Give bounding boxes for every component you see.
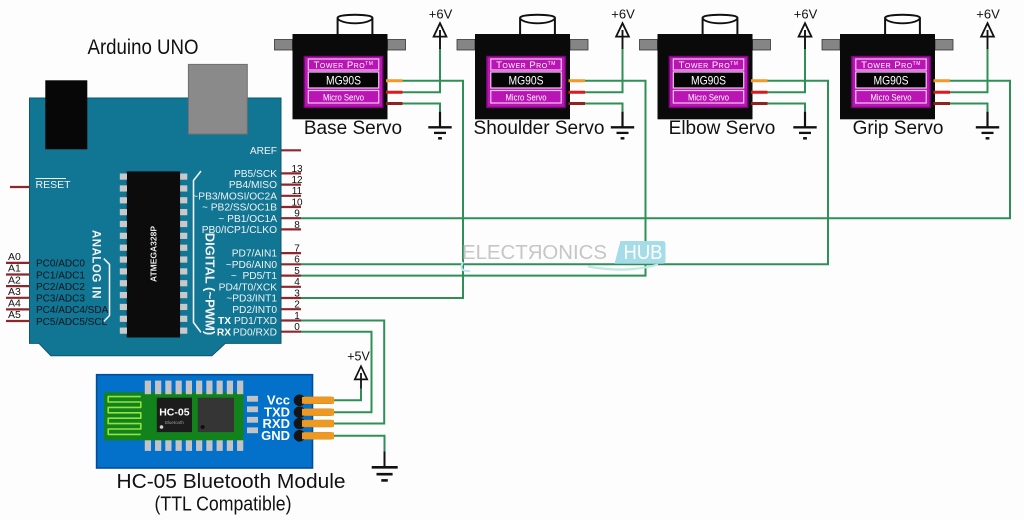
svg-text:~ PB2/SS/OC1B: ~ PB2/SS/OC1B [202, 203, 277, 214]
svg-text:RESET: RESET [36, 179, 72, 191]
svg-text:AREF: AREF [250, 146, 277, 157]
svg-text:PB4/MISO: PB4/MISO [229, 180, 277, 191]
svg-text:MG90S: MG90S [691, 73, 726, 87]
svg-text:9: 9 [294, 209, 300, 220]
svg-text:(TTL Compatible): (TTL Compatible) [155, 494, 292, 516]
svg-text:+5V: +5V [347, 350, 370, 364]
svg-text:Arduino UNO: Arduino UNO [88, 36, 199, 59]
svg-text:12: 12 [291, 175, 303, 186]
svg-text:RX: RX [217, 327, 231, 338]
svg-text:A0: A0 [8, 251, 21, 263]
svg-text:HC-05 Bluetooth Module: HC-05 Bluetooth Module [117, 470, 346, 493]
svg-text:~PD3/INT1: ~PD3/INT1 [226, 294, 277, 305]
svg-text:PC5/ADC5/SCL: PC5/ADC5/SCL [36, 317, 108, 328]
svg-text:7: 7 [294, 244, 300, 255]
svg-text:Grip Servo: Grip Servo [853, 118, 944, 139]
svg-text:A2: A2 [8, 274, 21, 286]
svg-text:~ PD5/T1: ~ PD5/T1 [231, 271, 277, 282]
svg-text:PD0/RXD: PD0/RXD [233, 327, 277, 338]
svg-text:Micro Servo: Micro Servo [506, 92, 547, 102]
svg-text:Micro Servo: Micro Servo [323, 92, 364, 102]
svg-text:A3: A3 [8, 286, 21, 298]
svg-text:DIGITAL (~PWM): DIGITAL (~PWM) [203, 233, 218, 335]
svg-text:+6V: +6V [429, 6, 453, 21]
svg-text:PC3/ADC3: PC3/ADC3 [36, 294, 85, 305]
svg-text:GND: GND [261, 428, 290, 443]
svg-text:5: 5 [294, 266, 300, 277]
svg-text:6: 6 [294, 255, 300, 266]
svg-text:~PD6/AIN0: ~PD6/AIN0 [226, 260, 278, 271]
svg-text:PD2/INT0: PD2/INT0 [232, 305, 277, 316]
svg-text:PC0/ADC0: PC0/ADC0 [36, 259, 85, 270]
svg-text:PC4/ADC4/SDA: PC4/ADC4/SDA [36, 305, 109, 316]
svg-text:+6V: +6V [611, 6, 635, 21]
svg-text:10: 10 [291, 197, 303, 208]
svg-text:HC-05: HC-05 [159, 407, 190, 419]
svg-text:+6V: +6V [976, 6, 1000, 21]
svg-text:ELECTЯONICS: ELECTЯONICS [462, 242, 607, 264]
svg-text:ATMEGA328P: ATMEGA328P [149, 226, 159, 282]
svg-text:8: 8 [294, 220, 300, 231]
svg-text:Micro Servo: Micro Servo [871, 92, 912, 102]
svg-text:~ PB1/OC1A: ~ PB1/OC1A [218, 214, 277, 225]
svg-text:3: 3 [294, 288, 300, 299]
svg-text:Elbow Servo: Elbow Servo [669, 118, 776, 139]
svg-text:11: 11 [292, 186, 303, 197]
svg-text:PD1/TXD: PD1/TXD [234, 316, 277, 327]
svg-text:A1: A1 [8, 263, 21, 275]
svg-text:Bluetooth: Bluetooth [165, 420, 185, 425]
svg-text:Shoulder Servo: Shoulder Servo [474, 118, 605, 139]
svg-text:~PB3/MOSI/OC2A: ~PB3/MOSI/OC2A [192, 191, 277, 202]
svg-text:TX: TX [218, 316, 231, 327]
svg-text:PD4/T0/XCK: PD4/T0/XCK [219, 282, 278, 293]
svg-text:ANALOG IN: ANALOG IN [90, 230, 102, 299]
svg-text:PB5/SCK: PB5/SCK [234, 169, 277, 180]
svg-text:A4: A4 [8, 298, 21, 310]
svg-text:Base Servo: Base Servo [304, 118, 402, 139]
svg-text:MG90S: MG90S [326, 73, 361, 87]
svg-text:+6V: +6V [794, 6, 818, 21]
svg-text:A5: A5 [8, 309, 21, 321]
svg-text:Micro Servo: Micro Servo [688, 92, 729, 102]
svg-text:HUB: HUB [624, 242, 663, 264]
svg-text:13: 13 [291, 164, 303, 175]
svg-text:PD7/AIN1: PD7/AIN1 [232, 249, 278, 260]
svg-text:2: 2 [294, 300, 300, 311]
svg-text:PC2/ADC2: PC2/ADC2 [36, 282, 85, 293]
svg-text:MG90S: MG90S [874, 73, 909, 87]
svg-text:PC1/ADC1: PC1/ADC1 [36, 270, 85, 281]
svg-text:1: 1 [294, 311, 300, 322]
svg-text:MG90S: MG90S [509, 73, 544, 87]
svg-text:4: 4 [294, 277, 300, 288]
svg-text:0: 0 [294, 322, 300, 333]
